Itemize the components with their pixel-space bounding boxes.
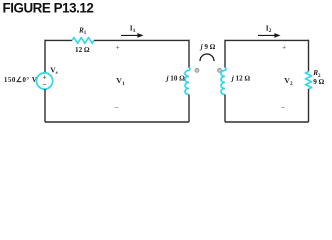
current arrow I1 — [121, 23, 144, 37]
svg-text:Vs: Vs — [50, 66, 58, 77]
svg-text:150∠0° V: 150∠0° V — [4, 76, 37, 84]
dot mark right coil — [218, 69, 222, 73]
wire: left loop bottom — [45, 121, 189, 123]
wire: left vertical above source — [44, 40, 46, 73]
svg-text:I1: I1 — [130, 23, 136, 34]
wire: right loop top — [225, 39, 309, 41]
svg-text:–: – — [114, 103, 119, 111]
svg-text:j 12 Ω: j 12 Ω — [231, 75, 251, 83]
svg-text:+: + — [116, 43, 120, 51]
wire: left loop top segment (R1 to right corner) — [94, 39, 189, 41]
svg-text:V2: V2 — [284, 76, 293, 87]
svg-text:V1: V1 — [116, 76, 125, 87]
svg-text:I2: I2 — [266, 23, 272, 34]
svg-text:12 Ω: 12 Ω — [75, 46, 90, 54]
svg-text:–: – — [280, 103, 285, 111]
current arrow I2 — [258, 23, 281, 37]
dot mark left coil — [195, 69, 199, 73]
wire: left loop right vertical above coil — [188, 40, 190, 68]
resistor R2 — [305, 72, 311, 90]
inductor j10 coil — [185, 68, 190, 95]
svg-text:+: + — [282, 43, 286, 51]
voltage source Vs — [37, 73, 53, 89]
wire: left loop top segment (source to R1) — [45, 39, 72, 41]
inductor j12 coil — [221, 68, 226, 95]
svg-text:j 10 Ω: j 10 Ω — [166, 74, 186, 82]
svg-text:j 9 Ω: j 9 Ω — [200, 43, 216, 51]
wire: right loop bottom — [225, 121, 309, 123]
mutual inductance arc — [200, 54, 214, 61]
resistor R1 — [72, 38, 94, 44]
wire: right vertical above R2 — [308, 40, 310, 72]
svg-text:FIGURE P13.12: FIGURE P13.12 — [3, 1, 94, 16]
svg-text:9 Ω: 9 Ω — [313, 78, 324, 86]
wire: left loop right vertical below coil — [188, 95, 190, 122]
svg-text:R1: R1 — [78, 26, 87, 36]
wire: right loop left vertical above coil — [224, 40, 226, 68]
wire: right loop left vertical below coil — [224, 95, 226, 122]
wire: left vertical below source — [44, 89, 46, 122]
wire: right vertical below R2 — [308, 89, 310, 122]
